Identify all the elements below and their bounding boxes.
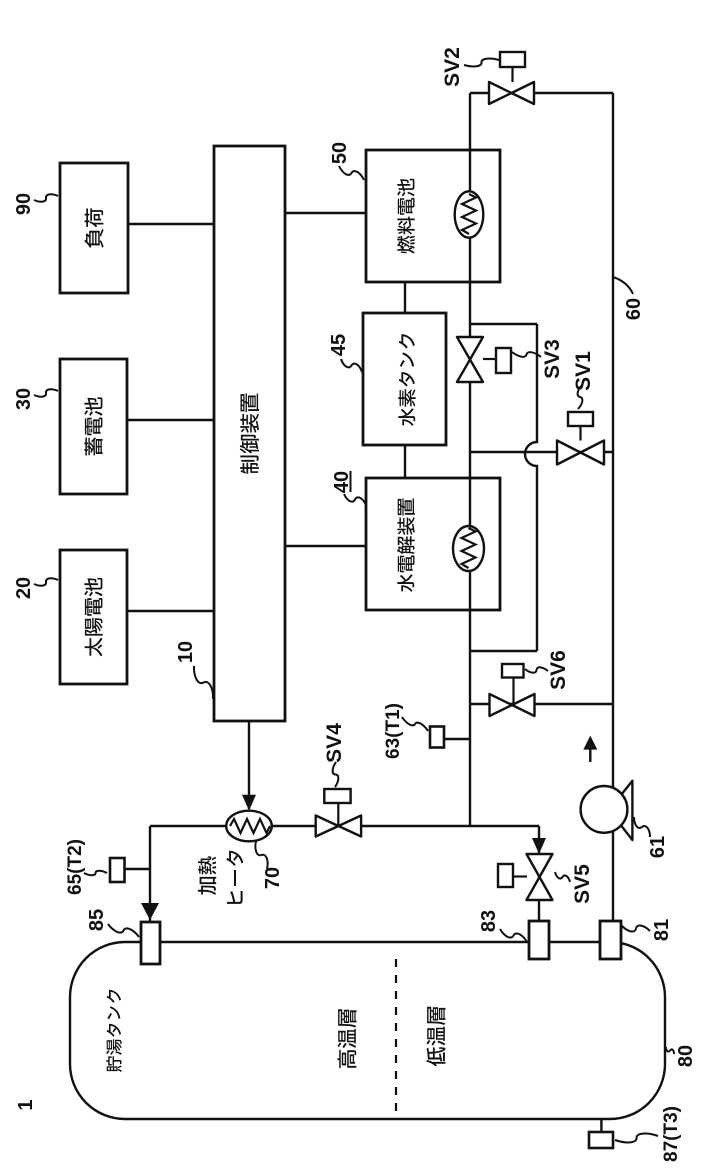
svg-text:10: 10 xyxy=(175,641,197,663)
wire 87T3 stub xyxy=(600,1119,602,1132)
label 加熱 (heating) xyxy=(198,856,216,895)
wire SV1 box-valve xyxy=(579,426,581,441)
svg-text:SV2: SV2 xyxy=(441,47,464,87)
leader 85 xyxy=(108,924,139,937)
svg-text:65(T2): 65(T2) xyxy=(65,839,86,895)
pipe bypass left rise xyxy=(470,650,537,652)
pipe SV6 branch xyxy=(470,703,613,705)
sensor 63(T1) box xyxy=(430,727,444,748)
leader SV6 xyxy=(525,667,548,672)
solenoid SV1 box xyxy=(568,412,593,426)
port 83 xyxy=(529,921,549,959)
leader SV1 xyxy=(578,385,583,409)
pump 61 circle xyxy=(581,786,628,833)
valve SV1 bowtie xyxy=(557,441,604,465)
wire controller-electrolyzer xyxy=(285,545,366,547)
solenoid SV2 box xyxy=(500,52,525,67)
solenoid SV6 box xyxy=(502,664,524,678)
svg-text:83: 83 xyxy=(478,910,500,932)
leader 81 xyxy=(622,925,650,931)
svg-text:81: 81 xyxy=(651,919,673,941)
svg-text:SV3: SV3 xyxy=(541,339,564,379)
valve SV5 bowtie xyxy=(527,854,553,900)
leader 61 xyxy=(634,817,650,837)
label 貯湯タンク (hot water tank) xyxy=(106,990,122,1072)
svg-text:SV4: SV4 xyxy=(323,723,346,763)
leader 45 xyxy=(341,359,362,372)
heater 70 ellipse xyxy=(226,811,272,842)
solenoid SV5 box xyxy=(498,864,513,887)
flow arrow shaft xyxy=(589,747,591,762)
arrowhead controller-heater xyxy=(242,795,256,811)
valve SV6 bowtie xyxy=(490,694,535,716)
box hydrogen-tank 45 xyxy=(363,313,446,445)
leader 90 xyxy=(34,194,58,201)
svg-text:60: 60 xyxy=(623,298,645,320)
leader 87T3 xyxy=(615,1134,658,1143)
coil in electrolyzer xyxy=(453,526,484,571)
label 蓄電池 (storage battery) xyxy=(84,397,102,455)
label 40 underlined xyxy=(331,471,353,493)
sensor 87(T3) box xyxy=(589,1132,613,1148)
label 負荷 (load) xyxy=(84,208,103,247)
leader 30 xyxy=(34,389,58,396)
label 水素タンク (hydrogen tank) xyxy=(398,334,415,426)
port 85 xyxy=(141,922,160,964)
svg-text:30: 30 xyxy=(13,388,35,410)
pipe SV2 riser xyxy=(470,92,613,94)
leader SV2 xyxy=(464,59,499,67)
leader 65T2 xyxy=(84,871,107,876)
box load 90 xyxy=(60,163,128,293)
pipe SV5 branch xyxy=(538,826,540,921)
pipe to port85 xyxy=(149,826,151,922)
pipe bypass bottom with hop over SV1 line xyxy=(525,324,537,651)
pipe bypass right drop xyxy=(470,323,537,325)
flow arrowhead xyxy=(583,736,597,750)
valve SV2 bowtie xyxy=(489,82,534,104)
svg-text:1: 1 xyxy=(15,1099,37,1110)
pump 61 triangle xyxy=(609,781,632,840)
wire controller-fuelcell xyxy=(285,212,366,214)
reformer coil in fuel cell xyxy=(455,191,484,237)
pipe SV1 branch xyxy=(470,451,613,453)
arrowhead into port85 xyxy=(141,903,159,920)
svg-text:63(T1): 63(T1) xyxy=(383,703,404,759)
pipe heater line xyxy=(150,825,539,827)
wire hydrogentank-electrolyzer xyxy=(404,445,406,478)
wire fuelcell-hydrogentank xyxy=(404,282,406,313)
solenoid SV4 box xyxy=(324,789,350,803)
svg-text:50: 50 xyxy=(329,142,351,164)
leader 50 xyxy=(339,166,364,180)
label 燃料電池 (fuel cell) xyxy=(397,179,415,254)
wire SV5 box-valve xyxy=(513,875,527,877)
leader 40 xyxy=(344,494,366,505)
box storage-battery 30 xyxy=(60,359,127,494)
valve SV4 bowtie xyxy=(316,816,361,837)
tank thermocline dashed line xyxy=(395,955,397,1111)
box electrolyzer 40 xyxy=(366,478,500,610)
wire SV6 box-valve xyxy=(512,678,514,706)
leader 70 xyxy=(255,841,267,869)
pipe main gas line xyxy=(469,93,471,826)
svg-text:87(T3): 87(T3) xyxy=(661,1106,682,1162)
arrowhead before SV5 xyxy=(532,838,546,854)
label 太陽電池 (solar cell) xyxy=(84,578,102,656)
svg-text:85: 85 xyxy=(86,909,108,931)
pipe hot-water line 60 xyxy=(612,93,614,921)
svg-text:90: 90 xyxy=(13,193,35,215)
wire load-controller xyxy=(128,223,214,225)
port 81 xyxy=(600,921,621,959)
wire 65T2 stub xyxy=(124,868,150,870)
box controller 10 xyxy=(214,146,285,721)
svg-text:70: 70 xyxy=(262,867,284,889)
svg-text:61: 61 xyxy=(647,836,669,858)
leader SV5 xyxy=(555,872,570,882)
svg-text:SV6: SV6 xyxy=(547,650,570,690)
svg-text:SV1: SV1 xyxy=(572,351,595,391)
leader 83 xyxy=(500,929,527,942)
box fuel-cell 50 xyxy=(366,150,500,282)
valve SV3 bowtie xyxy=(457,337,483,382)
wire battery-controller xyxy=(127,419,214,421)
solenoid SV3 box xyxy=(496,348,511,373)
svg-text:SV5: SV5 xyxy=(571,864,594,904)
wire controller-heater xyxy=(248,721,250,809)
label 水電解装置 (water electrolysis device) xyxy=(397,498,415,592)
leader 10 xyxy=(194,666,213,699)
tank 80 body xyxy=(70,942,665,1119)
wire SV3 box-valve xyxy=(483,358,496,360)
label 制御装置 (control device) xyxy=(240,393,259,473)
leader 60 xyxy=(613,277,633,294)
leader 20 xyxy=(34,578,58,585)
leader 63T1 xyxy=(402,717,428,731)
svg-text:80: 80 xyxy=(675,1045,697,1067)
wire 63T1 stub xyxy=(444,738,470,740)
wire SV4 box-valve xyxy=(337,803,339,826)
svg-text:45: 45 xyxy=(328,334,350,356)
leader SV3 xyxy=(512,352,541,357)
label 高温層 (high temp layer) xyxy=(338,1009,357,1068)
label ヒータ (heater) xyxy=(226,851,243,904)
box solar-cell 20 xyxy=(60,550,127,684)
svg-text:20: 20 xyxy=(13,577,35,599)
wire solar-controller xyxy=(127,610,214,612)
label 低温層 (low temp layer) xyxy=(426,1007,445,1067)
sensor 65(T2) box xyxy=(110,858,125,882)
wire SV2 box-valve xyxy=(511,67,513,82)
leader 80 xyxy=(666,1047,674,1054)
leader SV4 xyxy=(333,762,339,787)
